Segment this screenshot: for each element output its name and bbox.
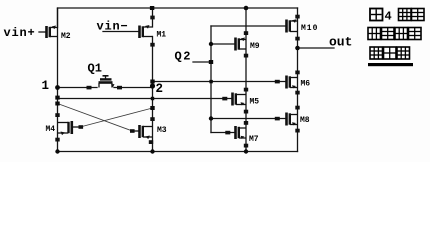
junction node1 / M5 wire <box>55 96 59 100</box>
transistor M7 <box>225 121 248 148</box>
wire left column node 1 rail <box>57 8 59 152</box>
wire right output column <box>297 8 299 152</box>
wire vin+ to M2 gate <box>39 31 46 33</box>
svg-text:2: 2 <box>156 82 164 96</box>
junction node1 / bottom corner <box>55 149 59 153</box>
transistor M9 <box>236 31 249 57</box>
wire Q1 to node2 <box>114 87 153 89</box>
svg-text:M1: M1 <box>157 31 167 40</box>
wire Q2 to M7 gate <box>211 132 235 134</box>
wire middle column <box>245 8 247 152</box>
junction top rail / M1 drain <box>150 6 154 10</box>
svg-text:M8: M8 <box>300 116 310 125</box>
svg-text:out: out <box>329 35 352 50</box>
svg-text:M3: M3 <box>157 126 167 135</box>
svg-text:Q1: Q1 <box>88 62 102 76</box>
node 1 <box>55 85 60 90</box>
wire node 2 column <box>152 37 154 152</box>
svg-text:M6: M6 <box>301 80 311 89</box>
wire node2 to M6 gate <box>153 81 286 83</box>
wire bottom rail <box>58 151 298 153</box>
wire top supply rail <box>58 7 298 9</box>
svg-text:vin+: vin+ <box>4 26 36 40</box>
transistor M10 <box>287 15 300 41</box>
junction node2 column / M5 gate wire <box>151 97 154 100</box>
junction node2 / bottom rail <box>150 149 154 153</box>
junction top rail / middle column <box>244 6 249 11</box>
junction node2 / cross-couple <box>150 106 154 110</box>
junction Q2 / M9 gate <box>209 42 213 46</box>
svg-text:M10: M10 <box>301 24 318 33</box>
wire node1 to M5 gate <box>58 98 232 100</box>
svg-text:1: 1 <box>42 79 50 93</box>
svg-text:M5: M5 <box>250 98 260 107</box>
wire node1 to Q1 <box>58 87 98 89</box>
junction out node <box>295 46 300 51</box>
svg-text:vin−: vin− <box>97 20 129 34</box>
wire Q2 to M10 gate <box>211 25 286 27</box>
transistor M2 <box>47 8 58 38</box>
transistor M6 <box>275 71 300 95</box>
junction node2 / M6 wire <box>150 80 154 84</box>
junction middle column / bottom rail <box>244 149 248 153</box>
wire cross-coupling M3 gate to node 1 <box>58 104 132 131</box>
transistor M1 <box>140 8 155 47</box>
junction node1 / cross-couple <box>55 102 59 106</box>
svg-text:M4: M4 <box>46 125 56 134</box>
junction Q2 column / M6 gate wire <box>209 80 212 83</box>
wire Q2 to M9 gate <box>211 43 235 45</box>
node 2 <box>150 83 155 88</box>
svg-text:M9: M9 <box>250 42 260 51</box>
svg-text:Q2: Q2 <box>175 50 192 64</box>
transistor M3 <box>130 117 155 144</box>
transistor M4 <box>55 113 83 141</box>
wire output <box>298 47 335 49</box>
caption figure title <box>368 9 424 67</box>
wire Q2 column <box>210 26 212 133</box>
junction Q2 / M8 gate <box>209 116 213 120</box>
svg-text:4: 4 <box>385 10 392 24</box>
transistor M5 <box>222 88 248 114</box>
junction Q2 label stub <box>209 60 213 64</box>
wire cross-coupling M4 gate to node 2 <box>82 108 153 127</box>
svg-text:M2: M2 <box>61 32 71 41</box>
wire Q2 label stub <box>193 61 211 63</box>
wire vin- to M1 gate <box>103 31 139 33</box>
wire Q2 to M8 gate <box>211 118 286 120</box>
transistor Q1 <box>87 76 123 90</box>
transistor M8 <box>275 106 300 133</box>
svg-text:M7: M7 <box>249 135 259 144</box>
